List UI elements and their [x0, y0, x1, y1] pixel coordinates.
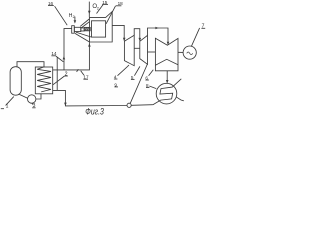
label 3 leader	[32, 103, 33, 104]
turbine T2 (pos.5)	[140, 35, 148, 64]
label 14 leader	[56, 56, 64, 62]
H2 label	[69, 13, 75, 19]
pump P (pos.3)	[28, 95, 36, 103]
pipe 17: HX to chamber bottom	[53, 42, 90, 70]
chamber outlet pipe	[112, 25, 124, 40]
wire vessel to pump	[19, 94, 27, 98]
arrow up on riser	[63, 56, 66, 59]
shaft T2-LP	[148, 51, 156, 53]
H2 arrow	[74, 17, 76, 22]
label 4 leader	[118, 65, 130, 76]
O2 label	[92, 4, 99, 10]
label 16 leader	[55, 6, 68, 25]
svg-text:1: 1	[6, 104, 9, 110]
burner tip	[81, 28, 84, 31]
combustion chamber inner liner	[92, 21, 106, 37]
bridge T2 to LP	[148, 28, 169, 44]
injector cone top lines	[80, 19, 89, 26]
condenser cooling water outlet stub	[177, 97, 184, 101]
label 14	[51, 51, 57, 56]
burner body	[74, 27, 81, 31]
O2 arrow line	[88, 2, 90, 18]
tick on pipe 17	[77, 69, 79, 72]
HX coil	[37, 67, 51, 92]
label 7 leader	[191, 28, 199, 47]
label 7	[202, 24, 205, 30]
label 2 leader	[53, 76, 65, 85]
svg-text:2: 2	[65, 71, 68, 77]
shaft T1-T2	[134, 47, 140, 49]
wire pump to HX bottom	[36, 94, 41, 99]
condenser coil	[153, 79, 181, 105]
label 6	[145, 75, 148, 80]
label 1	[6, 104, 9, 110]
stub pipe 14	[56, 58, 58, 91]
wire vessel top to HX inlet	[17, 62, 44, 68]
LP inner wedge	[155, 59, 178, 65]
arrow down on drain pipe	[64, 103, 67, 106]
label 5 leader	[134, 66, 140, 75]
label 4	[114, 74, 117, 79]
label 2	[65, 71, 68, 77]
arrow up into chamber	[88, 43, 91, 46]
label 8	[146, 83, 149, 88]
label 5	[131, 75, 134, 80]
condenser (pos.8)	[156, 83, 177, 104]
combustion chamber outer casing	[90, 12, 113, 42]
label 1 leader	[6, 97, 14, 106]
flow arrow on bridge	[155, 27, 158, 29]
heat exchanger HX (pos.2)	[35, 67, 52, 94]
label 18 leader	[106, 6, 115, 24]
bridge T1 to T2	[134, 29, 140, 41]
label 16	[48, 1, 54, 6]
bottom wire condenser to junction	[131, 104, 153, 107]
label 3	[33, 103, 36, 109]
label 18	[118, 1, 124, 6]
label 17 leader	[81, 71, 84, 75]
junction circle (pos.9)	[127, 103, 131, 107]
wire HX right to drain downpipe	[53, 90, 127, 106]
burner feed pipe (riser)	[64, 29, 72, 70]
generator G (pos.7)	[183, 46, 196, 59]
turbine T1 (pos.4)	[124, 35, 134, 65]
svg-text:2: 2	[73, 15, 75, 19]
drain diagonal T2 to junction	[130, 65, 147, 104]
injector cone bottom lines	[76, 32, 92, 37]
label 17	[83, 75, 89, 80]
svg-text:16: 16	[48, 1, 54, 6]
label 9	[114, 82, 117, 87]
svg-text:2: 2	[97, 6, 99, 10]
LP turbine (pos.6)	[155, 38, 178, 71]
vessel V1 (separator, pos.1)	[10, 67, 21, 96]
label 8 leader	[149, 86, 156, 89]
caption	[85, 107, 104, 117]
igniter block	[84, 27, 90, 30]
svg-text:14: 14	[51, 51, 57, 56]
shaft LP-generator	[178, 51, 183, 53]
burner flange	[72, 26, 75, 34]
label 6 leader	[149, 70, 154, 76]
label 15	[102, 0, 108, 5]
LP exhaust arrow	[166, 71, 168, 83]
svg-text:Фиг.3: Фиг.3	[85, 107, 104, 117]
label 15 leader	[97, 5, 104, 14]
